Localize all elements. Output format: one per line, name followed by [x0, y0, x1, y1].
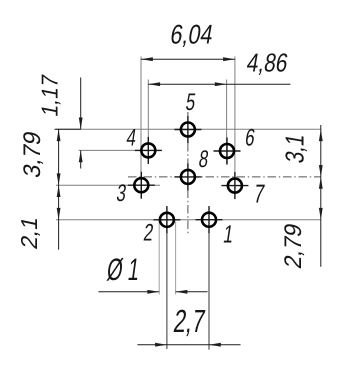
svg-text:1,17: 1,17 [37, 72, 63, 118]
svg-text:3,1: 3,1 [281, 132, 310, 165]
svg-text:2,7: 2,7 [172, 303, 208, 339]
svg-text:2,79: 2,79 [281, 221, 307, 271]
svg-text:2,1: 2,1 [16, 214, 42, 251]
svg-text:3,79: 3,79 [19, 129, 46, 180]
svg-text:Ø 1: Ø 1 [105, 252, 142, 288]
svg-text:4,86: 4,86 [245, 49, 291, 79]
svg-text:6,04: 6,04 [168, 21, 215, 51]
